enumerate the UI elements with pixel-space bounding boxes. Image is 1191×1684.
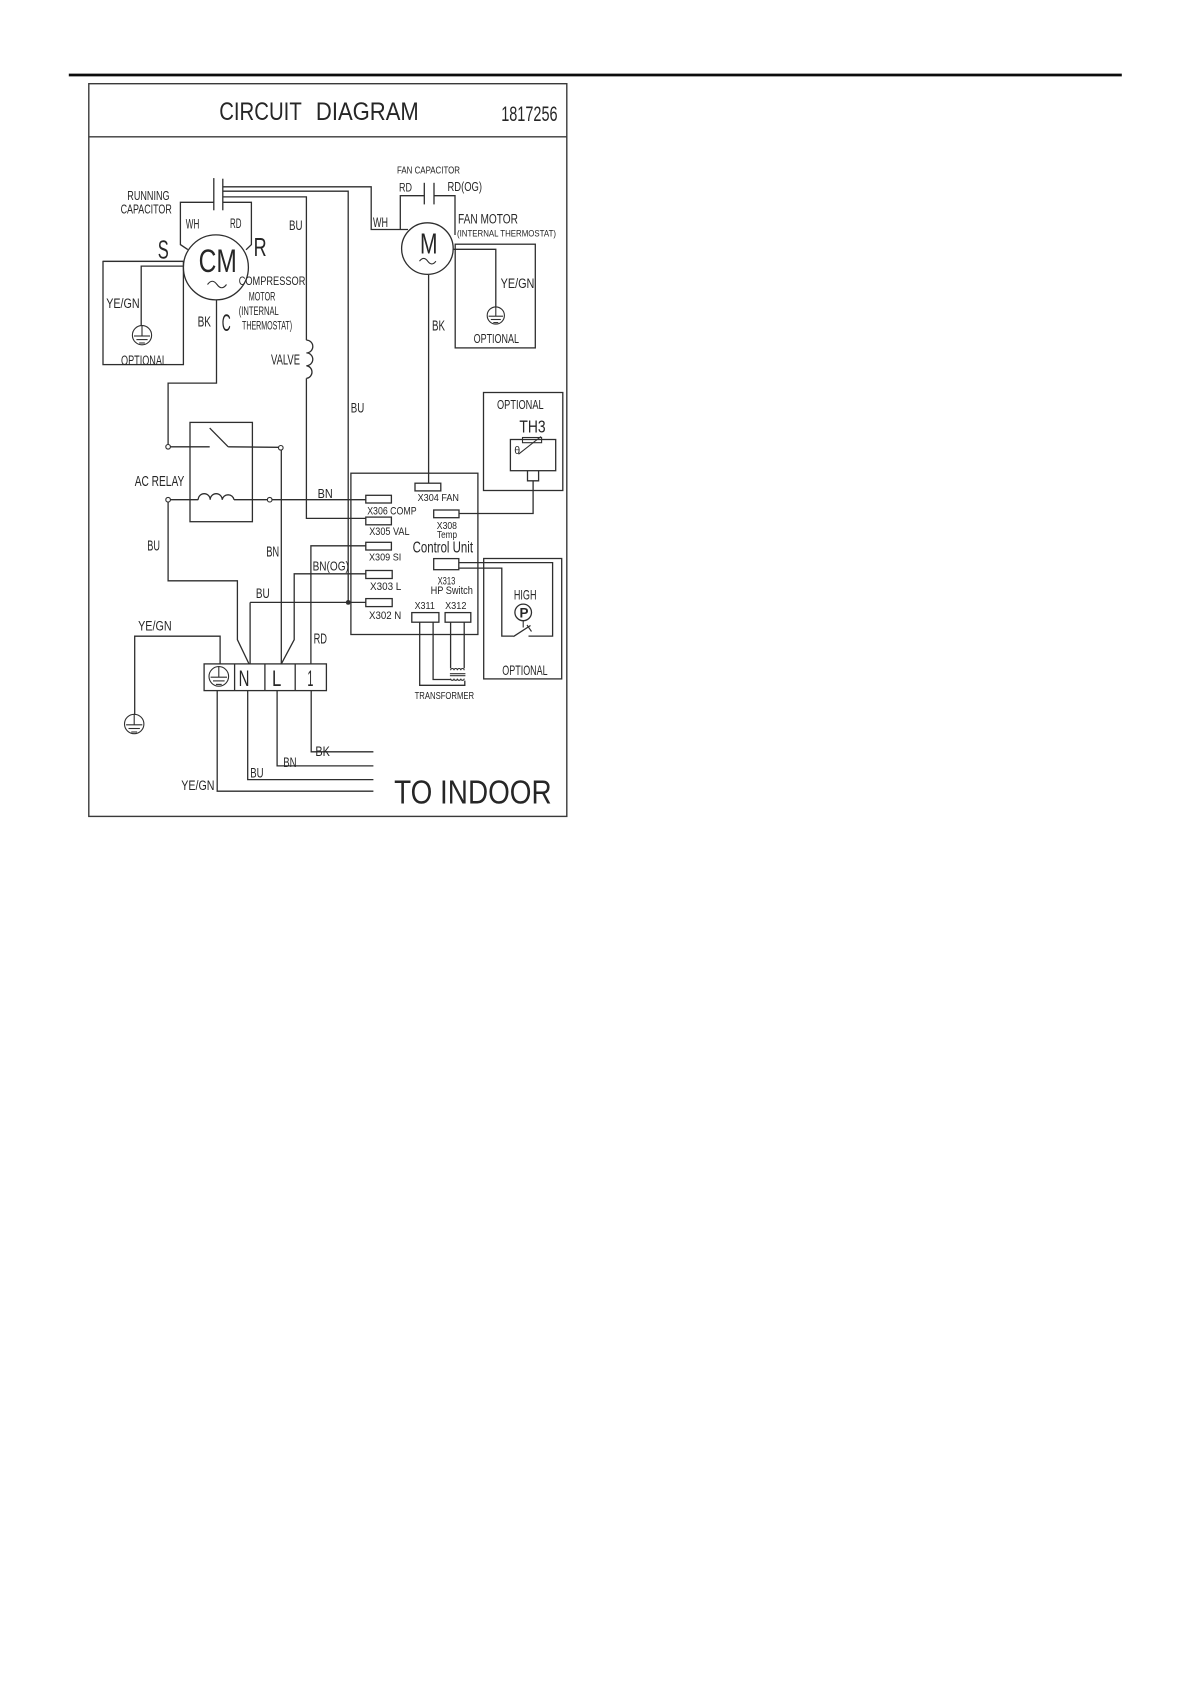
wire BK 1 terminal bottom to indoor: [311, 691, 373, 752]
svg-text:FAN MOTOR: FAN MOTOR: [458, 211, 518, 226]
ground symbol bottom left: [125, 714, 144, 733]
valve coil L1: [306, 340, 312, 378]
svg-text:1: 1: [307, 666, 313, 691]
svg-text:DIAGRAM: DIAGRAM: [316, 98, 419, 126]
wire X313 pin lower to switch: [459, 568, 514, 636]
svg-text:X304 FAN: X304 FAN: [418, 493, 459, 504]
svg-text:OPTIONAL: OPTIONAL: [497, 397, 544, 412]
svg-text:P: P: [520, 605, 529, 620]
wire TH3 to X308: [459, 481, 533, 514]
label X308 Temp: [437, 521, 458, 541]
wire C terminal to relay: [168, 300, 216, 444]
svg-text:BU: BU: [147, 539, 160, 555]
svg-text:X311: X311: [415, 601, 435, 612]
svg-text:Control Unit: Control Unit: [413, 539, 474, 556]
compressor motor CM circle: [183, 235, 248, 300]
wire BN coil to X306: [272, 499, 366, 501]
wire BN L terminal bottom to indoor: [277, 691, 373, 766]
svg-text:TH3: TH3: [519, 416, 545, 436]
wire X311 pin1 to transformer: [420, 622, 465, 685]
compressor optional ground box: [103, 261, 183, 364]
wire RD lead of running capacitor: [223, 202, 252, 250]
svg-text:BU: BU: [289, 218, 303, 233]
AC relay K1 box: [190, 422, 252, 521]
wire fan motor to ground: [454, 249, 496, 307]
wire out of relay coil: [234, 499, 267, 501]
running capacitor C1 plates: [214, 178, 223, 210]
wire fan capacitor left lead: [400, 196, 424, 230]
svg-text:CAPACITOR: CAPACITOR: [121, 203, 172, 217]
svg-text:RUNNING: RUNNING: [127, 189, 169, 203]
svg-text:1817256: 1817256: [501, 102, 557, 126]
fan capacitor C2 plates: [424, 183, 434, 205]
svg-text:OPTIONAL: OPTIONAL: [121, 353, 167, 369]
pressure switch blade tick: [527, 625, 532, 632]
wire X313 pin upper to switch: [459, 563, 553, 637]
wire valve to X305: [306, 378, 365, 518]
wire X312 pin2 to transformer: [463, 622, 465, 668]
svg-text:RD: RD: [230, 216, 242, 231]
connector X313: [434, 559, 459, 570]
svg-text:YE/GN: YE/GN: [501, 276, 535, 292]
wire into relay coil: [170, 499, 198, 501]
svg-text:TO INDOOR: TO INDOOR: [394, 773, 551, 810]
wire S terminal to box: [103, 260, 183, 262]
svg-text:X305 VAL: X305 VAL: [369, 526, 409, 538]
svg-text:CIRCUIT: CIRCUIT: [219, 98, 302, 126]
fan motor tilde: [420, 258, 436, 264]
thermostat TH3 element: [523, 438, 542, 443]
svg-text:(INTERNAL THERMOSTAT): (INTERNAL THERMOSTAT): [457, 228, 556, 238]
svg-text:M: M: [420, 228, 438, 260]
svg-text:BK: BK: [315, 744, 330, 760]
wire BU coil to N terminal: [168, 502, 249, 664]
wire relay switch right: [228, 446, 278, 449]
junction dot BU/X302: [346, 600, 351, 605]
connector X304: [415, 483, 441, 491]
connector X309: [366, 542, 392, 550]
svg-text:S: S: [158, 235, 169, 265]
svg-text:BN: BN: [318, 486, 333, 501]
fan motor M circle: [402, 223, 454, 275]
svg-text:MOTOR: MOTOR: [249, 289, 276, 303]
svg-text:OPTIONAL: OPTIONAL: [474, 331, 519, 346]
wire relay switch left: [170, 446, 209, 448]
svg-text:BU: BU: [351, 401, 365, 416]
svg-text:COMPRESSOR: COMPRESSOR: [239, 274, 306, 288]
ground symbol compressor: [132, 326, 151, 345]
wire N terminal riser: [249, 602, 251, 664]
title band divider: [89, 136, 567, 138]
svg-text:CM: CM: [199, 243, 237, 279]
svg-text:BK: BK: [198, 315, 212, 331]
svg-text:RD(OG): RD(OG): [448, 179, 483, 194]
wire BU from capacitor to valve coil: [223, 197, 307, 340]
svg-text:C: C: [222, 310, 231, 337]
svg-text:BN(OG): BN(OG): [313, 559, 349, 574]
ground symbol fan motor: [487, 307, 504, 324]
wire RD 1-terminal to X309: [311, 546, 366, 664]
svg-text:HP Switch: HP Switch: [431, 585, 473, 597]
label RUNNING CAPACITOR: [121, 189, 172, 216]
pressure switch stem: [522, 621, 524, 628]
relay switch blade: [210, 428, 229, 447]
svg-text:FAN CAPACITOR: FAN CAPACITOR: [397, 166, 460, 177]
svg-text:YE/GN: YE/GN: [181, 778, 214, 794]
wire BU N terminal bottom to indoor: [248, 691, 374, 780]
svg-text:BN: BN: [283, 755, 296, 771]
pressure switch blade: [513, 626, 530, 637]
svg-text:YE/GN: YE/GN: [106, 296, 139, 312]
wire WH lead of running capacitor: [180, 202, 213, 249]
svg-text:HIGH: HIGH: [514, 587, 537, 602]
wire running-capacitor to fan motor WH: [223, 187, 408, 230]
terminal divider 1: [234, 664, 236, 691]
svg-text:YE/GN: YE/GN: [138, 618, 172, 634]
wire BK fan motor to X304: [428, 275, 430, 483]
svg-text:BK: BK: [432, 319, 445, 335]
wire BU from capacitor to N junction: [223, 191, 348, 602]
svg-text:X309 SI: X309 SI: [369, 553, 401, 564]
terminal block TB1: [204, 664, 326, 691]
svg-text:BN: BN: [266, 544, 279, 560]
svg-text:VALVE: VALVE: [271, 352, 300, 368]
pressure sensor circle: [515, 604, 532, 621]
svg-text:R: R: [254, 232, 267, 262]
svg-text:X302 N: X302 N: [369, 610, 401, 622]
connector X308: [434, 510, 459, 518]
HIGH pressure optional box: [484, 559, 562, 679]
wire BN node to L terminal: [280, 450, 282, 664]
connector X311: [412, 613, 439, 623]
svg-text:X303 L: X303 L: [370, 581, 401, 593]
wire YE/GN terminal bottom to indoor: [217, 691, 373, 792]
control unit box: [351, 473, 478, 634]
svg-text:WH: WH: [186, 216, 200, 231]
svg-text:Temp: Temp: [437, 530, 457, 541]
svg-text:BU: BU: [256, 585, 270, 601]
svg-text:RD: RD: [399, 181, 412, 195]
wire fan capacitor right lead: [434, 196, 455, 235]
node relay switch left: [166, 445, 171, 450]
diagram outer border: [89, 84, 567, 817]
svg-text:L: L: [272, 666, 281, 691]
svg-text:X306 COMP: X306 COMP: [367, 506, 416, 518]
svg-text:(INTERNAL: (INTERNAL: [239, 304, 279, 318]
label COMPRESSOR MOTOR (INTERNAL THERMOSTAT): [239, 274, 306, 333]
wire X311 pin2 to transformer: [433, 622, 451, 679]
label X313 HP Switch: [431, 575, 473, 596]
TH3 optional box: [484, 393, 563, 491]
fan optional ground box: [455, 244, 535, 348]
connector X302: [366, 599, 392, 607]
top horizontal rule: [69, 74, 1122, 77]
node relay coil left: [166, 497, 171, 502]
wire YE/GN to ground: [141, 266, 183, 326]
svg-text:RD: RD: [314, 631, 327, 647]
svg-text:BU: BU: [250, 766, 263, 782]
connector X312: [445, 613, 471, 623]
thermostat blade: [519, 437, 542, 455]
svg-text:WH: WH: [373, 215, 388, 230]
relay coil: [198, 494, 234, 500]
svg-text:TRANSFORMER: TRANSFORMER: [415, 691, 475, 702]
thermostat bottom stub: [528, 471, 539, 481]
wire YE/GN terminal to left ground: [135, 636, 220, 714]
node relay switch right: [279, 446, 284, 451]
thermostat TH3 body: [510, 440, 555, 471]
wire X312 pin1 to transformer: [450, 622, 452, 668]
transformer T1 windings: [450, 669, 466, 681]
wire BN(OG) L terminal to X303: [281, 574, 366, 664]
terminal divider 3: [294, 664, 296, 691]
svg-text:THERMOSTAT): THERMOSTAT): [242, 318, 292, 332]
node relay coil right: [267, 497, 272, 502]
svg-text:X312: X312: [445, 601, 466, 612]
connector X305: [366, 517, 392, 525]
connector X303: [366, 571, 392, 579]
CM tilde: [208, 281, 227, 288]
svg-text:N: N: [239, 666, 250, 691]
wire BU N terminal to X302 junction: [250, 601, 366, 603]
svg-text:θ: θ: [514, 445, 520, 457]
terminal divider 2: [264, 664, 266, 691]
connector X306: [366, 495, 392, 503]
ground symbol terminal cell: [209, 667, 229, 687]
svg-text:AC RELAY: AC RELAY: [135, 474, 185, 490]
svg-text:OPTIONAL: OPTIONAL: [502, 662, 547, 678]
